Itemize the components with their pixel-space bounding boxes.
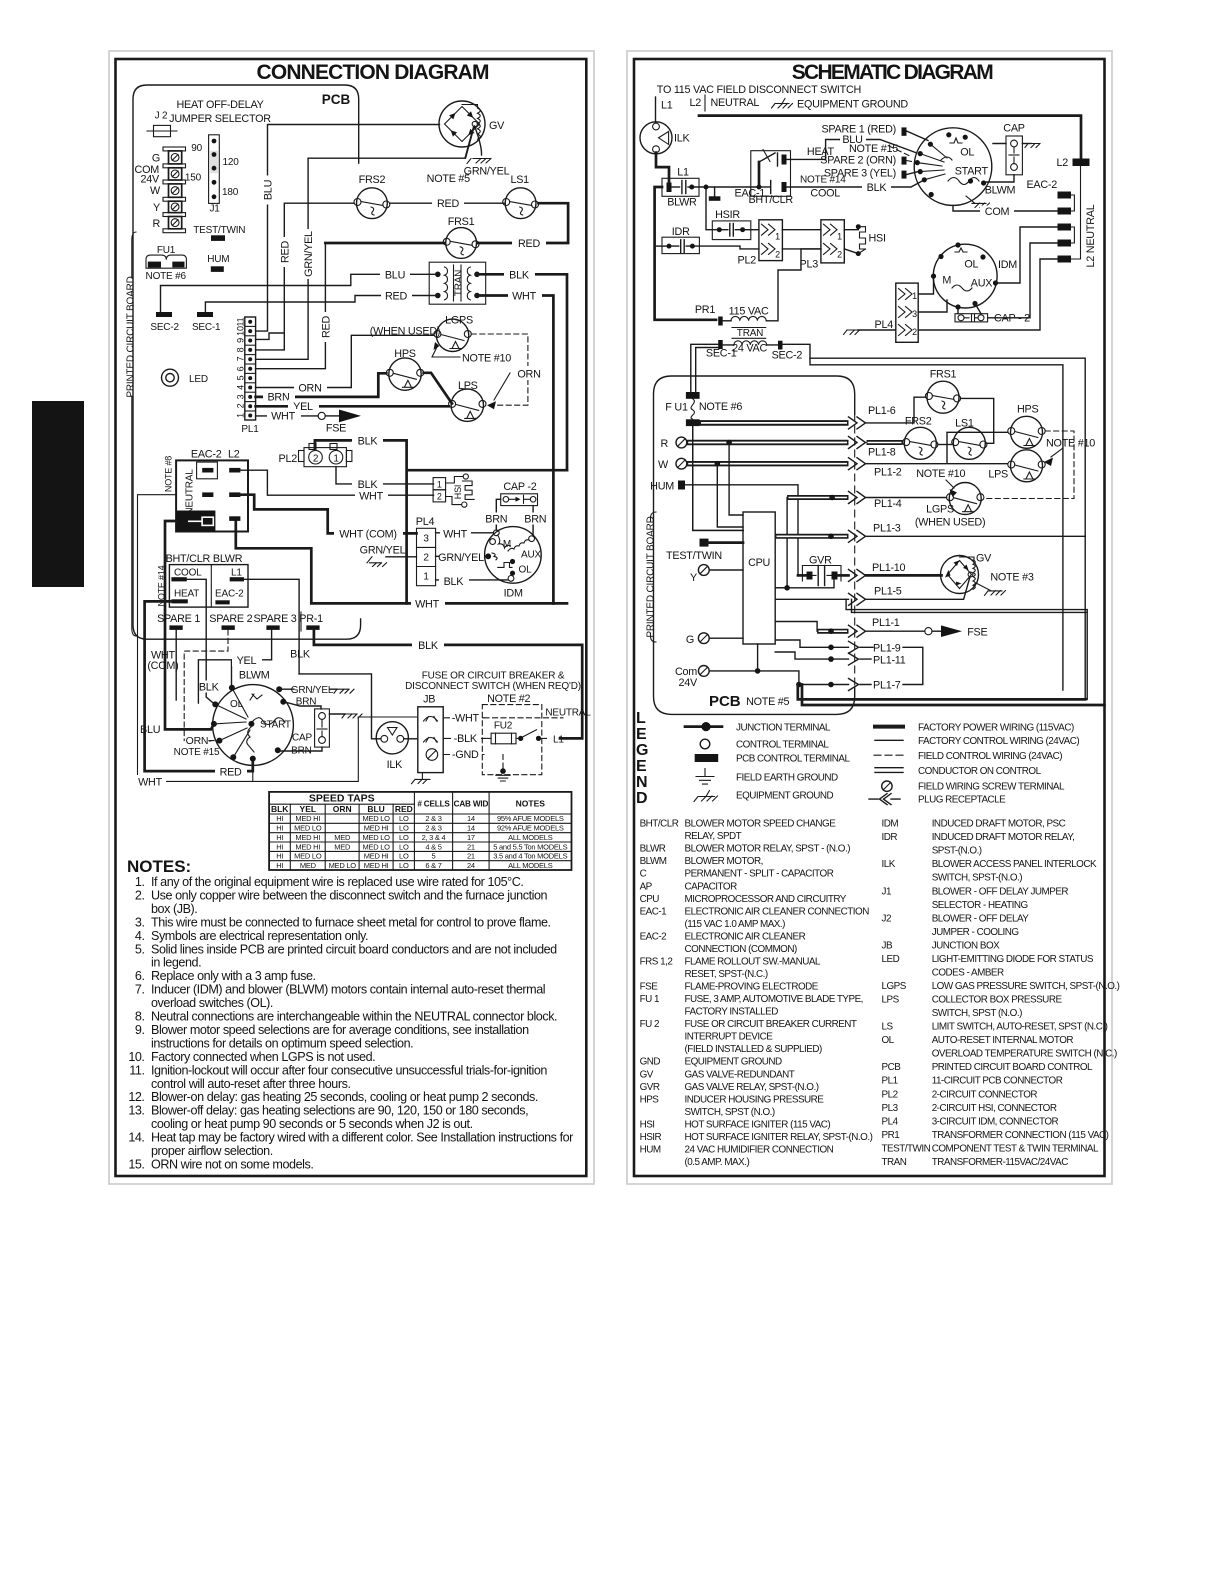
svg-text:G: G (152, 153, 160, 165)
svg-text:control will auto-reset after: control will auto-reset after three hour… (151, 1077, 351, 1091)
svg-text:11-CIRCUIT PCB CONNECTOR: 11-CIRCUIT PCB CONNECTOR (932, 1076, 1063, 1087)
svg-text:GND: GND (640, 1057, 661, 1068)
svg-text:1: 1 (837, 232, 842, 242)
svg-text:HSIR: HSIR (640, 1132, 662, 1143)
svg-text:HI: HI (276, 814, 283, 823)
svg-text:RED: RED (385, 291, 407, 303)
GRN/YEL from motor with ground (281, 688, 337, 690)
svg-text:PERMANENT - SPLIT - CAPACITOR: PERMANENT - SPLIT - CAPACITOR (685, 869, 834, 880)
PL3 connector (800, 220, 845, 271)
svg-text:Use only copper wire between t: Use only copper wire between the disconn… (151, 889, 548, 903)
svg-text:ELECTRONIC AIR CLEANER CONNECT: ELECTRONIC AIR CLEANER CONNECTION (685, 906, 870, 917)
disconnect switch dashed box (482, 705, 542, 775)
svg-text:NOTE #5: NOTE #5 (746, 696, 789, 708)
svg-text:NEUTRAL: NEUTRAL (711, 97, 760, 109)
svg-text:HUM: HUM (207, 254, 229, 265)
PL4 pin3 WHT to IDM (436, 532, 493, 534)
svg-text:LIMIT SWITCH, AUTO-RESET, SPST: LIMIT SWITCH, AUTO-RESET, SPST (N.C.) (932, 1022, 1108, 1033)
svg-text:This wire must be connected to: This wire must be connected to furnace s… (151, 915, 551, 929)
svg-text:instructions for details on op: instructions for details on optimum spee… (151, 1036, 413, 1050)
svg-text:Blower-off delay: gas heating: Blower-off delay: gas heating selections… (151, 1104, 528, 1118)
svg-text:Factory connected when LGPS is: Factory connected when LGPS is not used. (151, 1050, 375, 1064)
svg-text:(0.5 AMP. MAX.): (0.5 AMP. MAX.) (685, 1157, 750, 1168)
svg-text:Solid lines inside PCB are pri: Solid lines inside PCB are printed circu… (151, 942, 557, 956)
svg-text:HI: HI (276, 824, 283, 833)
svg-text:4: 4 (236, 385, 246, 390)
svg-text:BLWR: BLWR (213, 553, 243, 565)
wire SEC-1 to TRAN RED (205, 296, 437, 313)
svg-text:7.: 7. (135, 983, 145, 997)
svg-text:3: 3 (912, 309, 917, 319)
svg-text:8.: 8. (135, 1010, 145, 1024)
svg-text:GRN/YEL: GRN/YEL (360, 545, 406, 557)
svg-text:Replace only with a 3 amp fuse: Replace only with a 3 amp fuse. (151, 969, 316, 983)
svg-text:JUMPER - COOLING: JUMPER - COOLING (932, 927, 1019, 938)
FRS2 flame rollout switch (354, 174, 390, 219)
svg-text:INDUCER HOUSING PRESSURE: INDUCER HOUSING PRESSURE (685, 1094, 825, 1105)
FRS1 (schematic) (925, 369, 960, 414)
svg-text:1: 1 (333, 454, 339, 465)
svg-text:5 and 5.5 Ton MODELS: 5 and 5.5 Ton MODELS (493, 842, 567, 851)
svg-text:HOT SURFACE IGNITER RELAY, SPS: HOT SURFACE IGNITER RELAY, SPST-(N.O.) (685, 1132, 873, 1143)
svg-text:24 VAC HUMIDIFIER CONNECTION: 24 VAC HUMIDIFIER CONNECTION (685, 1145, 834, 1156)
svg-text:3-CIRCUIT IDM, CONNECTOR: 3-CIRCUIT IDM, CONNECTOR (932, 1116, 1059, 1127)
svg-text:PRINTED CIRCUIT BOARD: PRINTED CIRCUIT BOARD (126, 276, 137, 397)
svg-text:BLK: BLK (199, 682, 220, 694)
svg-text:COOL: COOL (174, 568, 202, 579)
svg-text:AUX: AUX (971, 278, 992, 290)
wire L2 mid bar to PL4 WHT COM (240, 495, 416, 534)
svg-text:1: 1 (437, 480, 442, 490)
PL2 connector (279, 444, 352, 467)
PL1-1 wire to FSE (775, 622, 817, 632)
TRAN secondary 24VAC (706, 340, 802, 362)
svg-text:95% AFUE MODELS: 95% AFUE MODELS (497, 814, 564, 823)
svg-text:2 & 3: 2 & 3 (425, 824, 441, 833)
svg-text:6: 6 (236, 366, 246, 371)
CPU microprocessor (743, 512, 775, 644)
svg-text:LO: LO (399, 852, 409, 861)
svg-text:SPARE 3: SPARE 3 (253, 613, 296, 625)
svg-text:NOTE #2: NOTE #2 (487, 693, 530, 705)
right panel outer gray frame (627, 51, 1112, 1184)
svg-text:5: 5 (236, 375, 246, 380)
SPEED TAPS table (269, 792, 571, 870)
F U1 fuse (right) (665, 392, 742, 426)
wire L2 top bar to HSI WHT (240, 470, 433, 495)
svg-text:NOTE #5: NOTE #5 (427, 173, 470, 185)
svg-text:HI: HI (276, 842, 283, 851)
svg-text:150: 150 (185, 173, 202, 184)
wire L2 bottom bar to WHT long run and JB (236, 521, 567, 603)
svg-text:BRN: BRN (524, 514, 546, 526)
svg-text:JUNCTION BOX: JUNCTION BOX (932, 940, 1000, 951)
branch verticals into CPU (717, 443, 743, 528)
svg-text:24V: 24V (141, 174, 161, 186)
svg-text:CAP: CAP (1003, 123, 1024, 135)
svg-text:8: 8 (236, 347, 246, 352)
svg-text:Ignition-lockout will occur af: Ignition-lockout will occur after four c… (151, 1063, 547, 1077)
LS1 limit switch (503, 174, 539, 219)
FRS2 (schematic) (903, 416, 938, 460)
wire HEAT to BLU motor (787, 140, 841, 160)
PL4 connector (schematic) (875, 283, 919, 342)
svg-text:If any of the original equipme: If any of the original equipment wire is… (151, 875, 523, 889)
svg-text:BLOWER MOTOR SPEED CHANGE: BLOWER MOTOR SPEED CHANGE (685, 819, 837, 830)
svg-text:CAP: CAP (292, 733, 312, 744)
svg-text:SWITCH, SPST (N.O.): SWITCH, SPST (N.O.) (932, 1008, 1022, 1019)
LPS collector box pressure switch (449, 380, 486, 422)
svg-text:2: 2 (313, 454, 319, 465)
svg-text:L2: L2 (228, 449, 240, 461)
svg-text:EAC-2: EAC-2 (640, 931, 667, 942)
W screw terminal (676, 458, 687, 469)
svg-text:INTERRUPT DEVICE: INTERRUPT DEVICE (685, 1032, 774, 1043)
svg-text:AUTO-RESET INTERNAL MOTOR: AUTO-RESET INTERNAL MOTOR (932, 1035, 1074, 1046)
svg-text:HOT SURFACE IGNITER (115 VAC): HOT SURFACE IGNITER (115 VAC) (685, 1119, 831, 1130)
svg-text:5: 5 (432, 852, 436, 861)
svg-text:CPU: CPU (640, 894, 660, 905)
abbreviation list left column (640, 819, 873, 1168)
svg-text:RED: RED (220, 766, 242, 778)
svg-text:2, 3 & 4: 2, 3 & 4 (422, 833, 446, 842)
svg-text:RED: RED (279, 241, 291, 263)
svg-text:HSI: HSI (869, 233, 886, 245)
notes list (128, 875, 573, 1172)
svg-text:MED LO: MED LO (294, 852, 322, 861)
svg-text:SWITCH, SPST (N.O.): SWITCH, SPST (N.O.) (685, 1107, 775, 1118)
svg-text:EAC-1: EAC-1 (640, 906, 668, 917)
svg-text:FRS1: FRS1 (930, 369, 957, 381)
svg-text:BHT/CLR: BHT/CLR (748, 194, 793, 206)
PL2 connector (schematic) (738, 220, 783, 267)
svg-text:GRN/YEL: GRN/YEL (303, 231, 315, 277)
svg-text:PL1-3: PL1-3 (873, 523, 901, 535)
GV gas valve (439, 101, 505, 147)
svg-text:INDUCED DRAFT MOTOR RELAY,: INDUCED DRAFT MOTOR RELAY, (932, 832, 1075, 843)
svg-text:C: C (640, 869, 647, 880)
wire ILK left stub (299, 674, 381, 739)
svg-text:2: 2 (775, 250, 780, 260)
svg-text:HPS: HPS (394, 348, 415, 360)
PL1-7 wire (799, 684, 871, 686)
svg-text:IDM: IDM (504, 588, 523, 600)
PL1-5 wire and diagonal to GV (775, 578, 970, 600)
svg-text:TRAN: TRAN (454, 270, 465, 296)
svg-text:BLWR: BLWR (640, 844, 666, 855)
BHT/CLR speed change relay (748, 150, 793, 207)
wire WHT PL1 pin1 to FSE electrode (256, 415, 319, 417)
svg-text:FRS1: FRS1 (448, 216, 475, 228)
svg-text:MED HI: MED HI (364, 824, 389, 833)
svg-text:ORN-: ORN- (186, 735, 213, 747)
svg-text:BRN: BRN (291, 746, 312, 757)
svg-text:SEC-1: SEC-1 (192, 322, 221, 333)
svg-text:1: 1 (912, 291, 917, 301)
svg-text:FSE: FSE (640, 982, 659, 993)
svg-text:BLK: BLK (358, 436, 379, 448)
wire FU1 to PL1-6 (700, 420, 849, 426)
svg-text:COOL: COOL (810, 188, 840, 200)
svg-text:GAS VALVE-REDUNDANT: GAS VALVE-REDUNDANT (685, 1069, 795, 1080)
svg-text:D: D (636, 790, 648, 807)
svg-text:PCB CONTROL TERMINAL: PCB CONTROL TERMINAL (736, 754, 850, 765)
svg-text:15.: 15. (128, 1158, 144, 1172)
legend factory control wiring (875, 739, 903, 741)
HPS (schematic) (1008, 404, 1045, 449)
svg-text:BLK: BLK (358, 479, 379, 491)
svg-text:ALL MODELS: ALL MODELS (508, 861, 553, 870)
wire R to PL1-8 (687, 440, 849, 445)
svg-text:cooling or heat pump 90 second: cooling or heat pump 90 seconds or 5 sec… (151, 1117, 473, 1131)
PCB outline (left panel printed circuit board boundary) (133, 85, 361, 639)
svg-text:W: W (658, 459, 669, 471)
svg-text:24V: 24V (679, 677, 699, 689)
GRN/YEL diagonals from GV (466, 126, 482, 158)
LGPS low gas pressure switch (434, 315, 473, 352)
svg-text:LS1: LS1 (955, 418, 974, 430)
svg-text:SPARE 1: SPARE 1 (157, 613, 200, 625)
svg-text:# CELLS: # CELLS (417, 800, 450, 809)
svg-text:Heat tap may be factory wired: Heat tap may be factory wired with a dif… (151, 1131, 573, 1145)
svg-text:HEAT OFF-DELAY: HEAT OFF-DELAY (176, 99, 263, 111)
svg-text:MED HI: MED HI (295, 833, 320, 842)
svg-text:HPS: HPS (640, 1094, 660, 1105)
svg-text:INDUCED DRAFT MOTOR, PSC: INDUCED DRAFT MOTOR, PSC (932, 819, 1066, 830)
svg-text:L1: L1 (661, 100, 673, 112)
svg-text:-GND: -GND (452, 749, 479, 761)
svg-text:EAC-2: EAC-2 (215, 589, 244, 600)
legend field control wiring (874, 754, 903, 756)
LED indicator (162, 369, 179, 386)
wire W to PL1-2 (687, 461, 849, 466)
svg-text:13.: 13. (128, 1104, 144, 1118)
svg-text:BLOWER - OFF DELAY: BLOWER - OFF DELAY (932, 913, 1030, 924)
HSI igniter (schematic) (844, 224, 885, 256)
svg-text:SPEED TAPS: SPEED TAPS (309, 793, 375, 805)
svg-text:MED HI: MED HI (295, 814, 320, 823)
svg-text:FUSE, 3 AMP, AUTOMOTIVE BLADE: FUSE, 3 AMP, AUTOMOTIVE BLADE TYPE, (685, 994, 863, 1005)
svg-text:CONNECTION DIAGRAM: CONNECTION DIAGRAM (257, 61, 490, 84)
svg-text:FIELD WIRING SCREW TERMINAL: FIELD WIRING SCREW TERMINAL (918, 782, 1065, 793)
svg-text:YEL: YEL (237, 655, 257, 667)
svg-text:L2 NEUTRAL: L2 NEUTRAL (1085, 204, 1097, 267)
svg-text:JB: JB (882, 940, 893, 951)
wire YEL PL1 pin2 to LPS (256, 405, 449, 408)
svg-text:MED: MED (334, 833, 351, 842)
svg-text:Blower motor speed selections: Blower motor speed selections are for av… (151, 1023, 529, 1037)
svg-text:-WHT: -WHT (452, 713, 480, 725)
capacitor CAP (292, 709, 329, 747)
svg-text:RED: RED (320, 316, 332, 338)
svg-text:FSE: FSE (967, 627, 987, 639)
svg-text:21: 21 (467, 842, 475, 851)
TRAN core (732, 328, 766, 339)
svg-text:PL1-8: PL1-8 (868, 447, 896, 459)
wire L1 down to motor (244, 579, 299, 674)
svg-text:PL4: PL4 (416, 516, 435, 528)
wire ILK to BLWR (656, 153, 669, 183)
svg-text:11.: 11. (129, 1063, 144, 1077)
svg-text:G: G (636, 742, 648, 759)
BLU wire to motor (840, 140, 916, 153)
svg-text:1: 1 (236, 413, 246, 418)
svg-text:HSIR: HSIR (715, 209, 740, 221)
wire TRAN BLK to PL2 (315, 440, 567, 603)
svg-text:BLK: BLK (418, 640, 439, 652)
svg-text:ORN: ORN (298, 383, 321, 395)
svg-text:SELECTOR - HEATING: SELECTOR - HEATING (932, 900, 1028, 911)
svg-text:LPS: LPS (882, 995, 900, 1006)
PL4 connector (416, 516, 436, 586)
HPS inducer housing pressure switch (386, 348, 423, 390)
svg-text:IDM: IDM (998, 259, 1017, 271)
svg-text:GVR: GVR (640, 1082, 660, 1093)
svg-text:in legend.: in legend. (151, 956, 201, 970)
svg-text:ORN: ORN (333, 804, 352, 814)
svg-text:SEC-2: SEC-2 (150, 322, 179, 333)
svg-text:GAS VALVE RELAY, SPST-(N.O.): GAS VALVE RELAY, SPST-(N.O.) (685, 1082, 819, 1093)
wire SPARE2 dashed ORN (184, 630, 228, 741)
svg-text:SWITCH, SPST-(N.O.): SWITCH, SPST-(N.O.) (932, 873, 1023, 884)
FSE electrode (925, 628, 932, 635)
svg-text:PL3: PL3 (882, 1103, 899, 1114)
wire PL1-6 to FRS1 (867, 397, 926, 423)
svg-text:MED LO: MED LO (362, 842, 390, 851)
EAC-2 terminal chain (1026, 166, 1080, 263)
svg-text:BRN: BRN (267, 392, 289, 404)
conductor on control double line (846, 599, 1087, 699)
wire COOL down (187, 579, 216, 705)
svg-text:180: 180 (222, 187, 239, 198)
svg-text:CPU: CPU (748, 557, 770, 569)
svg-text:PL1-6: PL1-6 (868, 405, 896, 417)
svg-text:J1: J1 (882, 886, 892, 897)
svg-text:MICROPROCESSOR AND CIRCUITRY: MICROPROCESSOR AND CIRCUITRY (685, 894, 847, 905)
L1 wire down to ILK (655, 97, 657, 122)
svg-text:PL4: PL4 (875, 319, 894, 331)
svg-text:2: 2 (837, 250, 842, 260)
SEC-2 rails to right side (783, 344, 1086, 699)
svg-text:(COM): (COM) (147, 660, 178, 672)
svg-text:2: 2 (912, 327, 917, 337)
IDM induced draft motor (485, 527, 542, 600)
svg-text:L2: L2 (1056, 157, 1068, 169)
equipment ground symbol top (772, 99, 793, 109)
svg-text:L2: L2 (689, 97, 701, 109)
wire BLW to blower motor BLU (165, 521, 214, 729)
svg-text:6.: 6. (135, 969, 145, 983)
LPS (schematic) (988, 450, 1045, 482)
svg-text:LED: LED (882, 954, 900, 965)
svg-text:NEUTRAL: NEUTRAL (545, 708, 591, 719)
svg-text:BRN: BRN (296, 697, 317, 708)
svg-text:WHT: WHT (271, 411, 295, 423)
svg-text:PL1-11: PL1-11 (873, 655, 906, 667)
L2 terminal bar (1073, 159, 1090, 167)
wire SEC-2 to TRAN BLU (161, 274, 438, 312)
svg-text:J 2: J 2 (155, 111, 168, 122)
left bus vertical (655, 187, 716, 320)
NEUTRAL connector block (164, 449, 249, 532)
wire IDR to PL2 pin2 (695, 246, 759, 249)
jumper PL1-9 to PL1-7 (903, 647, 923, 684)
svg-text:17: 17 (467, 833, 475, 842)
svg-text:24: 24 (467, 861, 475, 870)
svg-text:NOTES: NOTES (516, 799, 546, 809)
svg-text:PL4: PL4 (882, 1116, 899, 1127)
svg-text:HUM: HUM (650, 481, 674, 493)
HSI connector (433, 474, 474, 507)
svg-text:TEST/TWIN: TEST/TWIN (193, 225, 245, 236)
BRN wires CAP-2 to IDM (496, 499, 533, 536)
svg-text:J2: J2 (882, 913, 891, 924)
svg-text:HEAT: HEAT (174, 589, 199, 600)
svg-text:LS1: LS1 (510, 174, 529, 186)
svg-text:MED HI: MED HI (364, 861, 389, 870)
COM wire (953, 205, 1058, 211)
FU2 fuse (484, 721, 564, 746)
svg-text:9: 9 (236, 338, 246, 343)
svg-text:W: W (150, 185, 161, 197)
svg-text:LOW GAS PRESSURE SWITCH, SPST-: LOW GAS PRESSURE SWITCH, SPST-(N.O.) (932, 981, 1120, 992)
svg-text:3: 3 (236, 394, 246, 399)
svg-text:IDR: IDR (882, 832, 898, 843)
svg-text:BLOWER MOTOR,: BLOWER MOTOR, (685, 856, 763, 867)
svg-text:FIELD CONTROL WIRING (24VAC): FIELD CONTROL WIRING (24VAC) (918, 751, 1062, 762)
svg-text:(WHEN USED): (WHEN USED) (915, 517, 985, 529)
left panel outer gray frame (109, 51, 594, 1184)
svg-text:12.: 12. (128, 1090, 144, 1104)
svg-text:115 VAC: 115 VAC (729, 306, 769, 318)
svg-text:SPARE 2 (ORN): SPARE 2 (ORN) (820, 155, 896, 167)
svg-text:FUSE OR CIRCUIT BREAKER &: FUSE OR CIRCUIT BREAKER & (422, 671, 565, 682)
svg-text:LO: LO (399, 824, 409, 833)
svg-text:5.: 5. (135, 942, 145, 956)
svg-text:L1: L1 (231, 568, 242, 579)
wire PL1-4 to LGPS (867, 497, 947, 499)
svg-text:OL: OL (964, 259, 978, 271)
svg-text:ALL MODELS: ALL MODELS (508, 833, 553, 842)
field earth ground in disconnect box (502, 755, 504, 769)
svg-text:14: 14 (467, 814, 475, 823)
ILK interlock switch (376, 722, 408, 771)
wire CPU to GVR junction (775, 579, 834, 588)
svg-text:FACTORY INSTALLED: FACTORY INSTALLED (685, 1007, 779, 1018)
svg-text:COMPONENT TEST & TWIN TERMINAL: COMPONENT TEST & TWIN TERMINAL (932, 1143, 1099, 1154)
wire FU1 down to CPU (693, 426, 744, 530)
svg-text:L1: L1 (553, 734, 564, 745)
svg-text:ELECTRONIC AIR CLEANER: ELECTRONIC AIR CLEANER (685, 931, 806, 942)
svg-text:F U1: F U1 (665, 402, 688, 414)
wire GRN/YEL PL1 pin7 to GV (256, 127, 474, 359)
LEGEND vertical heading (636, 710, 648, 807)
svg-text:LO: LO (399, 842, 409, 851)
svg-text:BLU: BLU (140, 724, 160, 736)
left panel black border (116, 59, 587, 1176)
svg-text:L: L (636, 710, 646, 727)
terminal strip G COM24V W Y R (135, 153, 162, 231)
svg-text:GV: GV (640, 1069, 654, 1080)
svg-text:TEST/TWIN: TEST/TWIN (882, 1143, 931, 1154)
PL1 connector strip (236, 317, 260, 435)
svg-text:YEL: YEL (300, 804, 317, 814)
svg-text:WHT: WHT (138, 777, 162, 789)
wire SPARE1 down (175, 630, 177, 700)
Y screw terminal (698, 565, 709, 576)
svg-text:(FIELD INSTALLED & SUPPLIED): (FIELD INSTALLED & SUPPLIED) (685, 1044, 822, 1055)
R screw terminal (676, 437, 687, 448)
